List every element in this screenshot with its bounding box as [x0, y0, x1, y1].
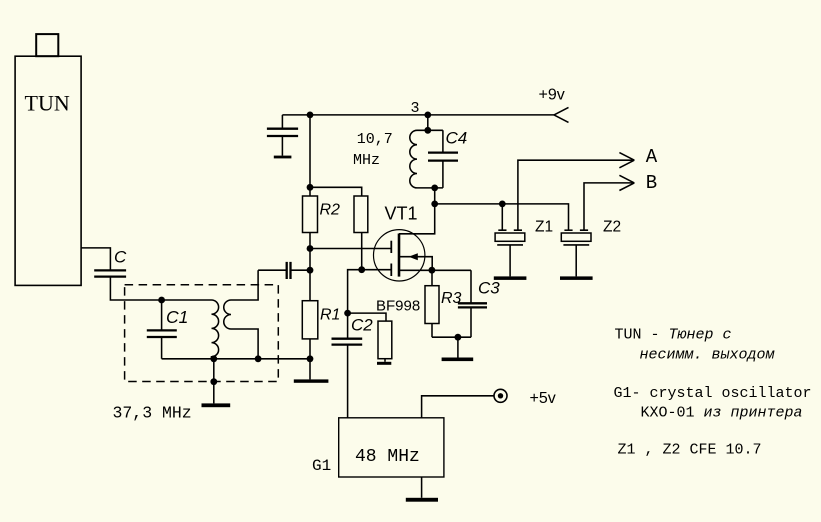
node R3 ground	[455, 334, 462, 341]
capacitor C4	[428, 130, 458, 188]
wire drain to Z filters	[435, 204, 569, 230]
wire Z2 output pin to B	[580, 183, 634, 230]
node rail to tank	[424, 112, 431, 119]
wire Z2 input pin	[564, 229, 572, 231]
svg-text:C: C	[114, 248, 127, 267]
wire R2 pair top link	[310, 187, 362, 196]
transistor VT1 substrate lead	[400, 257, 432, 271]
node R1 bottom	[307, 355, 314, 362]
ground under G1	[406, 477, 438, 502]
transistor VT1 gate2 electrode	[390, 241, 392, 253]
oscillator G1 box	[339, 418, 444, 477]
svg-text:C3: C3	[478, 279, 500, 298]
wire Z1 output pin to A	[514, 160, 635, 230]
transistor VT1 gate1 electrode	[390, 264, 392, 277]
wire gate2 line	[310, 248, 391, 250]
+9v arrow	[554, 107, 569, 122]
resistor R3	[425, 270, 439, 337]
wire Z1 input pin	[498, 204, 506, 230]
node R2 top	[307, 184, 314, 191]
decoupling capacitor at rail	[267, 115, 298, 156]
wire rail to tank top	[427, 115, 429, 130]
transistor VT1 source lead	[400, 269, 471, 271]
node gate1 junction	[358, 266, 365, 273]
node tank bottom right	[255, 355, 262, 362]
svg-text:BF998: BF998	[376, 298, 420, 315]
node tank bottom left	[210, 355, 217, 362]
wire to resistor R4	[348, 313, 386, 321]
node C2 top	[344, 310, 351, 317]
svg-text:TUN: TUN	[25, 91, 70, 116]
wire TUN output to capacitor C	[81, 248, 110, 271]
node tank bottom	[431, 185, 438, 192]
svg-text:3: 3	[411, 100, 420, 117]
svg-text:TUN - Тюнер с: TUN - Тюнер с	[615, 327, 732, 344]
ground under R4	[377, 359, 391, 365]
svg-text:48 MHz: 48 MHz	[355, 447, 420, 467]
node shield connection	[210, 378, 217, 385]
wire G1 to +5v	[422, 396, 494, 418]
wire shield to ground	[213, 359, 215, 404]
svg-text:+9v: +9v	[539, 87, 565, 104]
transistor VT1 substrate arrow	[409, 253, 418, 260]
svg-text:Z1: Z1	[535, 219, 553, 236]
transistor VT1 drain lead	[399, 188, 435, 234]
capacitor C3	[458, 270, 487, 337]
transistor VT1 circle	[374, 230, 425, 281]
svg-text:R3: R3	[441, 290, 462, 307]
svg-text:G1: G1	[312, 457, 331, 475]
node tank top	[424, 127, 431, 134]
transformer T1 primary winding	[212, 300, 219, 359]
svg-text:несимм. выходом: несимм. выходом	[640, 347, 776, 364]
svg-text:R2: R2	[320, 202, 341, 219]
wire C to input tank	[110, 277, 211, 300]
svg-text:G1- crystal oscillator: G1- crystal oscillator	[614, 385, 812, 402]
svg-text:Z2: Z2	[603, 219, 621, 236]
wire rail down to R2 pair	[309, 115, 311, 187]
svg-text:B: B	[646, 172, 657, 194]
resistor R2	[303, 187, 318, 248]
resistor R4	[378, 321, 392, 359]
svg-text:Z1 , Z2 CFE 10.7: Z1 , Z2 CFE 10.7	[618, 441, 762, 458]
svg-text:MHz: MHz	[353, 152, 380, 169]
node input	[158, 297, 165, 304]
filter Z2 body	[561, 233, 591, 245]
capacitor C	[94, 270, 126, 276]
capacitor C1	[147, 300, 177, 359]
ground under Z2	[560, 245, 593, 280]
svg-text:A: A	[646, 146, 658, 168]
tuner TUN box	[15, 34, 81, 285]
node rail to R2	[307, 112, 314, 119]
wire R2 to R1	[309, 249, 311, 271]
shield dashed box 37,3 MHz filter	[125, 285, 279, 382]
node source junction	[429, 267, 436, 274]
svg-text:VT1: VT1	[385, 204, 418, 224]
coupling capacitor secondary	[258, 262, 310, 279]
svg-text:C2: C2	[351, 316, 373, 335]
svg-text:C4: C4	[446, 129, 468, 148]
wire gate1 line	[348, 270, 392, 313]
ground under R1	[294, 359, 329, 383]
label 10,7 MHz	[353, 131, 393, 169]
wire tank bottom rail	[162, 358, 310, 360]
arrow B	[619, 175, 634, 190]
svg-text:C1: C1	[166, 307, 188, 327]
inductor L1 drain tank	[410, 130, 443, 188]
ground under Z1	[494, 245, 527, 280]
+9v rail	[282, 114, 554, 116]
wire R3 C3 bottom	[432, 336, 471, 338]
transformer T1 secondary winding	[224, 270, 258, 359]
connector +5v	[494, 389, 507, 402]
transistor VT1 channel	[398, 234, 401, 277]
svg-text:10,7: 10,7	[357, 131, 393, 148]
svg-text:+5v: +5v	[530, 390, 556, 407]
node gate2	[307, 245, 314, 252]
ground under decoupling capacitor	[274, 156, 292, 159]
resistor R2b	[354, 196, 368, 270]
node Z1 tap	[499, 201, 506, 208]
capacitor C2	[332, 313, 363, 418]
arrow A	[619, 153, 634, 168]
ground under R3	[442, 337, 474, 361]
ground under shield	[202, 403, 231, 407]
resistor R1	[302, 270, 318, 359]
filter Z1 body	[495, 233, 525, 245]
svg-text:37,3 MHz: 37,3 MHz	[113, 404, 192, 423]
node R1 top	[307, 267, 314, 274]
svg-text:KXO-01 из принтера: KXO-01 из принтера	[641, 404, 803, 421]
node drain to filters	[431, 201, 438, 208]
svg-text:R1: R1	[320, 307, 340, 324]
